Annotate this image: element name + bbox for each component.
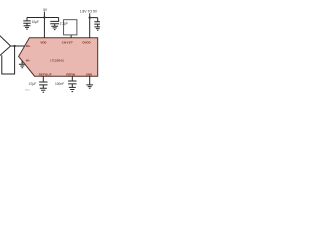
svg-text:TA01a: TA01a bbox=[25, 89, 30, 92]
svg-text:1.8V TO 5V: 1.8V TO 5V bbox=[80, 9, 98, 13]
svg-text:100nF: 100nF bbox=[55, 82, 64, 86]
svg-text:IN−: IN− bbox=[26, 59, 31, 63]
svg-text:LTC2389-16: LTC2389-16 bbox=[50, 59, 64, 63]
svg-text:10µF: 10µF bbox=[32, 20, 39, 24]
svg-text:5V: 5V bbox=[43, 8, 48, 12]
svg-text:47µF: 47µF bbox=[29, 82, 36, 86]
svg-text:REFBUF: REFBUF bbox=[39, 73, 52, 77]
svg-text:IN+: IN+ bbox=[26, 44, 31, 48]
svg-text:GND: GND bbox=[86, 73, 92, 77]
svg-text:VDD: VDD bbox=[40, 40, 46, 44]
svg-text:CNVST: CNVST bbox=[62, 40, 73, 44]
svg-text:OVDD: OVDD bbox=[82, 40, 90, 44]
svg-text:REFIN: REFIN bbox=[66, 73, 75, 77]
svg-text:2.2µF: 2.2µF bbox=[60, 22, 68, 26]
